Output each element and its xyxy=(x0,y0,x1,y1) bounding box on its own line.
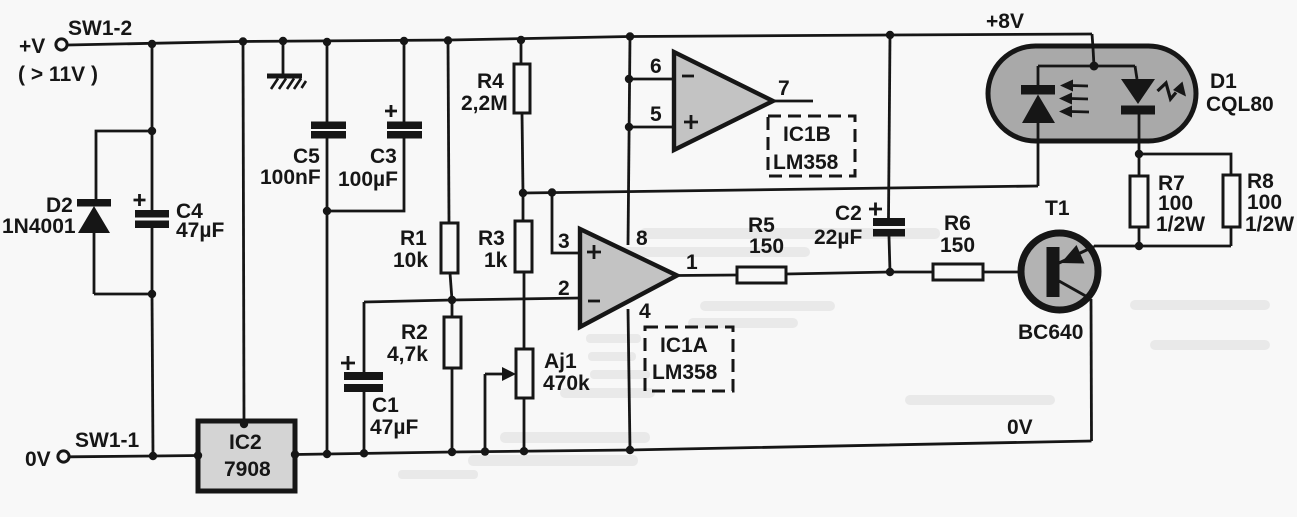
label 0V right xyxy=(1007,416,1033,439)
label R6 xyxy=(944,212,971,235)
svg-text:C2: C2 xyxy=(835,202,862,225)
wire pin 6 xyxy=(629,78,674,81)
label C4 xyxy=(176,200,203,223)
label 0V left xyxy=(25,448,51,471)
capacitor C1 47uF xyxy=(341,302,383,452)
node junction 0V R2 xyxy=(448,448,456,456)
label R7 power xyxy=(1156,213,1205,236)
wire R5 to C2/R6 node xyxy=(786,272,890,274)
light arrows photodiode xyxy=(1059,80,1089,118)
svg-text:C1: C1 xyxy=(372,394,399,417)
label box IC1B LM358 xyxy=(768,116,855,176)
svg-text:6: 6 xyxy=(650,55,662,78)
label R5 value xyxy=(749,235,784,258)
ground symbol xyxy=(267,41,306,89)
label R8 power xyxy=(1245,213,1294,236)
resistor R8 100 xyxy=(1223,175,1240,246)
node junction rail-IC2 xyxy=(239,37,247,45)
wire to R8 top xyxy=(1139,154,1231,175)
node junction rail-R1 xyxy=(444,36,452,44)
label 1N4001 xyxy=(2,215,76,238)
svg-text:LM358: LM358 xyxy=(773,151,839,174)
resistor R6 150 xyxy=(933,264,983,280)
svg-text:+V: +V xyxy=(19,35,45,58)
wire rail to D1 anode entry xyxy=(1092,34,1093,48)
node junction pin5 xyxy=(625,123,633,131)
wire D1 internal supply xyxy=(1038,48,1135,66)
transistor T1 BC640 xyxy=(1021,233,1098,310)
wire C4 to 0V xyxy=(152,294,153,456)
node junction C2-R5-R6 xyxy=(886,268,894,276)
node junction IC2 left pin xyxy=(194,451,202,459)
label R2 xyxy=(401,321,428,344)
resistor R1 10k xyxy=(441,41,458,301)
wire D2/C4 branch drop xyxy=(151,44,154,210)
svg-text:SW1-1: SW1-1 xyxy=(75,429,140,452)
wire R6 to T1 base xyxy=(983,271,1048,274)
node junction rail-C3 xyxy=(400,37,408,45)
label C2 xyxy=(835,202,862,225)
svg-text:1/2W: 1/2W xyxy=(1156,213,1205,236)
svg-text:7: 7 xyxy=(778,77,790,100)
svg-text:IC2: IC2 xyxy=(229,431,262,454)
label D1 type xyxy=(1206,93,1274,116)
label box IC1A LM358 xyxy=(645,327,733,391)
svg-text:150: 150 xyxy=(940,234,975,257)
svg-text:100: 100 xyxy=(1247,191,1282,214)
label R5 xyxy=(748,214,775,237)
svg-text:SW1-2: SW1-2 xyxy=(68,17,132,40)
label pin 3 xyxy=(558,230,570,253)
wire C2 node to R6 xyxy=(890,271,933,274)
label SW1-1 xyxy=(75,429,140,452)
laser emission arrow xyxy=(1158,82,1187,100)
node junction 0V Aj1 bottom xyxy=(520,447,528,455)
svg-text:R1: R1 xyxy=(400,227,427,250)
capacitor C5 100nF xyxy=(311,42,346,454)
svg-text:BC640: BC640 xyxy=(1018,321,1083,344)
wire pin 2 net xyxy=(364,298,580,302)
laser diode D1 right xyxy=(1121,66,1155,154)
diode D2 1N4001 xyxy=(77,199,111,294)
resistor R7 100 xyxy=(1130,154,1148,246)
label C1 value xyxy=(370,416,418,439)
label pin 8 xyxy=(636,227,648,250)
svg-text:R6: R6 xyxy=(944,212,971,235)
label +8V xyxy=(986,10,1024,33)
svg-text:10k: 10k xyxy=(393,249,428,272)
svg-text:R4: R4 xyxy=(477,70,504,93)
terminal +V input xyxy=(56,39,67,50)
label pin 2 xyxy=(558,277,570,300)
label pin 7 xyxy=(778,77,790,100)
svg-text:T1: T1 xyxy=(1045,197,1070,220)
trimmer Aj1 470k xyxy=(485,349,533,451)
wire 0V rail right xyxy=(295,441,1092,455)
label pin 4 xyxy=(639,300,651,323)
label T1 xyxy=(1045,197,1070,220)
wire T1 collector to 0V xyxy=(1090,299,1093,441)
label C1 xyxy=(372,394,399,417)
svg-text:22µF: 22µF xyxy=(814,226,862,249)
svg-text:1N4001: 1N4001 xyxy=(2,215,76,238)
svg-text:( > 11V ): ( > 11V ) xyxy=(18,63,98,86)
node junction D1 cathode / R7 R8 xyxy=(1135,150,1143,158)
label Aj1 xyxy=(544,350,577,373)
wire 0V rail left xyxy=(70,456,198,457)
svg-text:D1: D1 xyxy=(1210,70,1237,93)
svg-text:R8: R8 xyxy=(1247,170,1274,193)
label R1 xyxy=(400,227,427,250)
svg-text:3: 3 xyxy=(558,230,570,253)
node junction D1 internal xyxy=(1090,62,1099,71)
svg-text:C3: C3 xyxy=(370,145,397,168)
svg-text:8: 8 xyxy=(636,227,648,250)
resistor R2 4,7k xyxy=(444,300,461,452)
node junction rail-R4 xyxy=(517,36,525,44)
optocoupler D1 CQL80 package xyxy=(988,46,1196,141)
resistor R3 1k xyxy=(515,193,532,349)
label C4 value xyxy=(176,219,224,242)
label R8 xyxy=(1247,170,1274,193)
node junction 0V D2/C4 xyxy=(149,452,157,460)
svg-text:2: 2 xyxy=(558,277,570,300)
svg-text:IC1A: IC1A xyxy=(660,334,708,357)
label C2 value xyxy=(814,226,862,249)
wire D2 bottom return xyxy=(94,293,152,296)
wire IC2 ground pin riser xyxy=(243,42,244,422)
label C5 xyxy=(293,145,320,168)
label +V range xyxy=(18,63,98,86)
wire pin 4 to 0V xyxy=(628,309,630,450)
label R4 xyxy=(477,70,504,93)
label R7 value xyxy=(1158,192,1193,215)
label R8 value xyxy=(1247,191,1282,214)
capacitor C2 22uF xyxy=(869,35,905,272)
wire pin 3 stub xyxy=(552,193,580,254)
node junction D2 tap xyxy=(148,127,156,135)
label D2 xyxy=(46,194,73,217)
terminal 0V input xyxy=(58,451,69,462)
label C3 xyxy=(370,145,397,168)
op-amp IC1B xyxy=(674,52,773,150)
label R7 xyxy=(1158,172,1185,195)
svg-text:5: 5 xyxy=(650,103,662,126)
svg-text:CQL80: CQL80 xyxy=(1206,93,1274,116)
node junction D2/C4 bottom xyxy=(148,290,156,298)
svg-text:1k: 1k xyxy=(484,249,508,272)
svg-text:IC1B: IC1B xyxy=(783,123,831,146)
svg-text:47µF: 47µF xyxy=(176,219,224,242)
svg-text:LM358: LM358 xyxy=(652,361,718,384)
label C5 value xyxy=(260,166,321,189)
svg-text:R2: R2 xyxy=(401,321,428,344)
wire pin 7 output stub xyxy=(773,100,813,103)
label Aj1 value xyxy=(543,372,590,395)
svg-text:+8V: +8V xyxy=(986,10,1024,33)
node junction rail-ground xyxy=(279,37,287,45)
svg-text:R5: R5 xyxy=(748,214,775,237)
svg-text:4: 4 xyxy=(639,300,651,323)
node junction pin3 tap xyxy=(548,188,556,196)
svg-text:0V: 0V xyxy=(1007,416,1033,439)
node junction C5/C3 bottom xyxy=(323,207,331,215)
voltage regulator IC2 7908 xyxy=(198,421,295,491)
svg-text:470k: 470k xyxy=(543,372,590,395)
wire top +V rail xyxy=(68,34,1092,45)
svg-text:47µF: 47µF xyxy=(370,416,418,439)
wire pin 5 xyxy=(629,126,674,129)
svg-text:7908: 7908 xyxy=(224,458,271,481)
svg-text:100nF: 100nF xyxy=(260,166,321,189)
label BC640 xyxy=(1018,321,1083,344)
node junction 0V Aj1 wiper xyxy=(481,447,489,455)
node junction rail-C5 xyxy=(323,38,331,46)
node junction IC2 right pin xyxy=(291,450,299,458)
label R2 value xyxy=(387,343,428,366)
wire node A (R4/R3/pin3/photodiode net) xyxy=(523,186,1038,193)
node junction pin6 xyxy=(625,75,633,83)
label R3 xyxy=(478,227,505,250)
svg-text:D2: D2 xyxy=(46,194,73,217)
node junction 0V C1 xyxy=(360,449,368,457)
label +V xyxy=(19,35,45,58)
label D1 xyxy=(1210,70,1237,93)
node junction rail-IC1B supply xyxy=(626,32,634,40)
label R4 value xyxy=(461,92,508,115)
label pin 1 xyxy=(686,251,698,274)
svg-text:R3: R3 xyxy=(478,227,505,250)
wire IC1B inputs / IC1A pin8 riser xyxy=(628,37,630,246)
label SW1-2 xyxy=(68,17,132,40)
svg-text:2,2M: 2,2M xyxy=(461,92,508,115)
label R6 value xyxy=(940,234,975,257)
label pin 6 xyxy=(650,55,662,78)
capacitor C4 47uF xyxy=(134,194,170,294)
node junction R7 bottom xyxy=(1135,242,1143,250)
wire pin 1 output xyxy=(677,274,737,277)
svg-text:1: 1 xyxy=(686,251,698,274)
svg-text:Aj1: Aj1 xyxy=(544,350,577,373)
node junction R4-R3 xyxy=(519,189,527,197)
node junction rail-C2 xyxy=(886,31,894,39)
node junction rail-C4 xyxy=(148,40,156,48)
svg-text:150: 150 xyxy=(749,235,784,258)
svg-text:100: 100 xyxy=(1158,192,1193,215)
svg-text:1/2W: 1/2W xyxy=(1245,213,1294,236)
svg-text:4,7k: 4,7k xyxy=(387,343,428,366)
label R3 value xyxy=(484,249,508,272)
node junction 0V pin4 xyxy=(626,446,634,454)
wire emitter to R7/R8 bottoms xyxy=(1094,245,1231,248)
node junction 0V C5 xyxy=(323,450,331,458)
wire D2 top branch xyxy=(96,131,152,199)
label R1 value xyxy=(393,249,428,272)
svg-text:C5: C5 xyxy=(293,145,320,168)
svg-text:0V: 0V xyxy=(25,448,51,471)
label C3 value xyxy=(338,168,398,191)
op-amp IC1A xyxy=(580,229,677,327)
photodiode D1 left xyxy=(1021,66,1055,186)
label pin 5 xyxy=(650,103,662,126)
resistor R5 150 xyxy=(737,267,786,283)
svg-text:100µF: 100µF xyxy=(338,168,398,191)
capacitor C3 100uF xyxy=(327,41,422,211)
resistor R4 2,2M xyxy=(514,40,530,193)
node junction IC2 top pin xyxy=(240,420,248,428)
node junction R1-R2-pin2 xyxy=(448,296,456,304)
